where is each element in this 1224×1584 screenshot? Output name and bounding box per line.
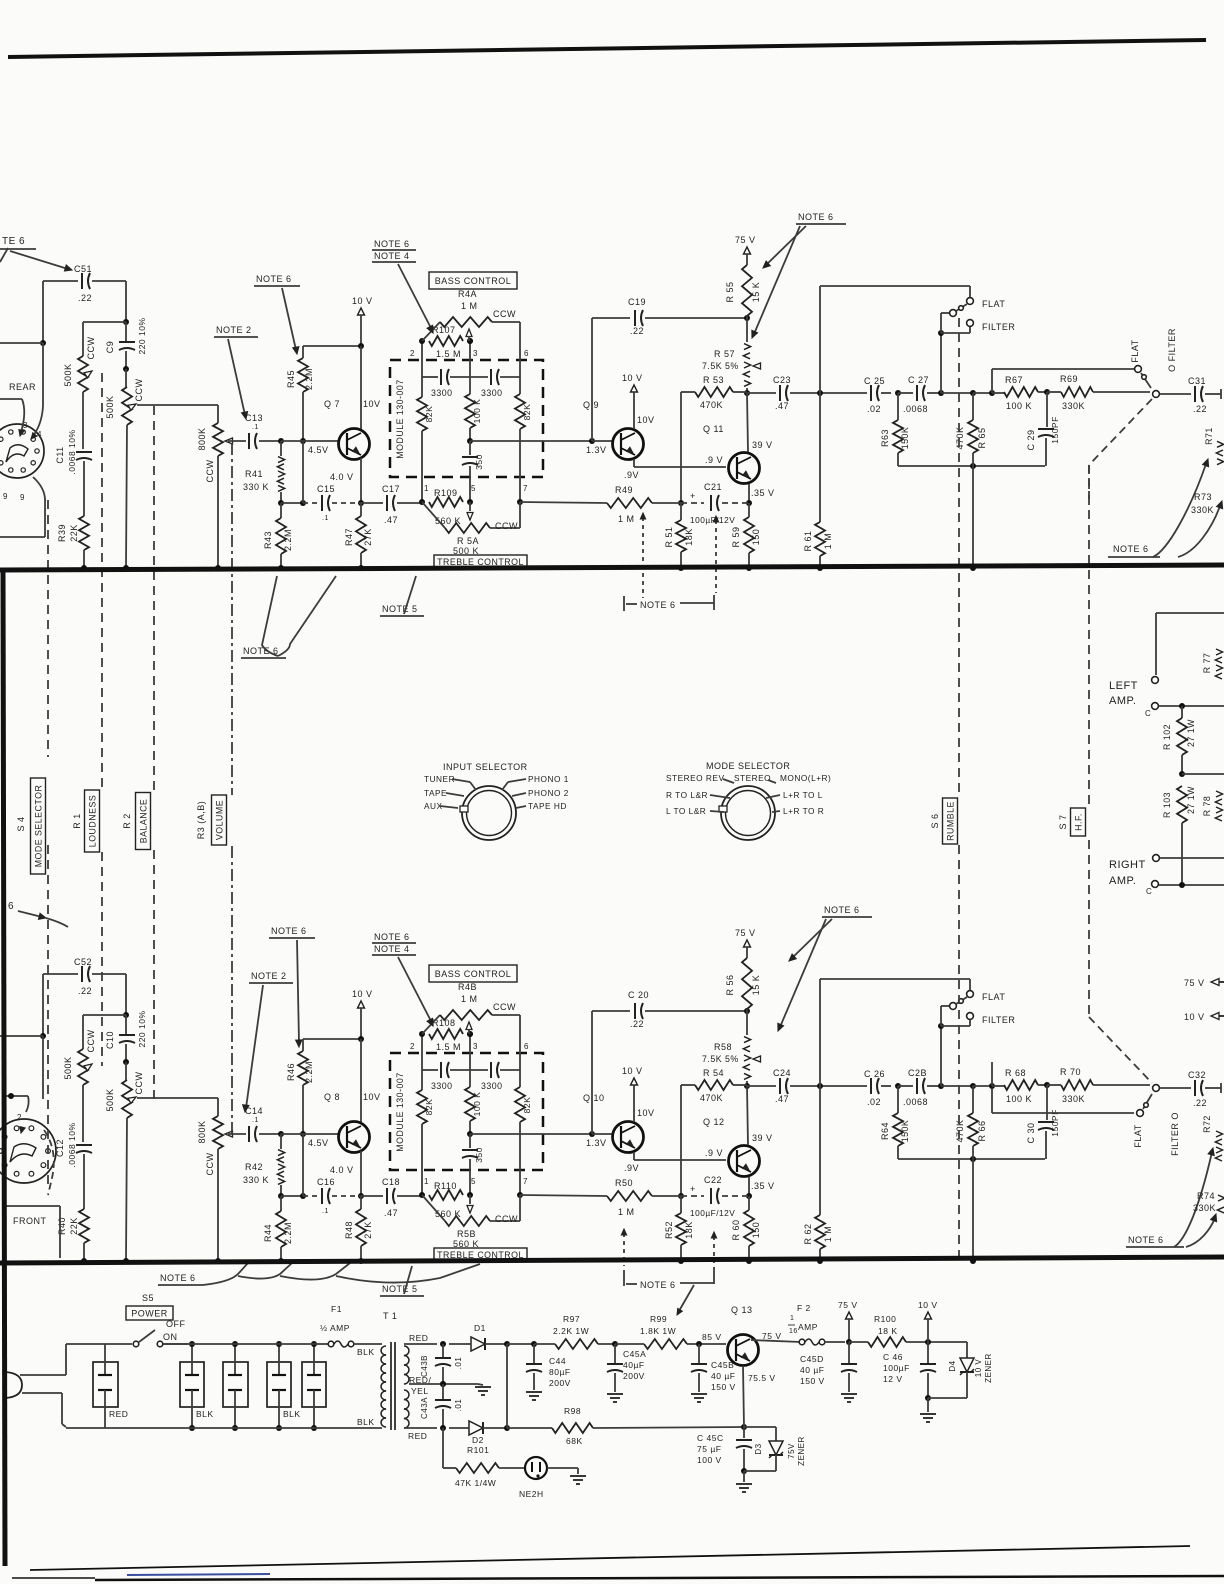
svg-text:R 5A: R 5A <box>457 536 479 546</box>
pot 500K <box>122 1080 132 1118</box>
capacitor C16 <box>303 1177 361 1215</box>
wire <box>215 456 221 571</box>
wire <box>81 1243 87 1264</box>
svg-text:CCW: CCW <box>205 460 215 483</box>
wire <box>519 1015 521 1087</box>
svg-text:RED: RED <box>109 1409 128 1419</box>
resistor R42 <box>243 1134 285 1199</box>
svg-text:BLK: BLK <box>357 1347 375 1357</box>
svg-text:27 1W: 27 1W <box>1186 786 1196 814</box>
wire <box>83 461 85 516</box>
svg-text:75 V: 75 V <box>838 1300 858 1310</box>
svg-text:.35 V: .35 V <box>751 1181 775 1191</box>
svg-text:RED: RED <box>408 1431 427 1441</box>
diode D4 zener <box>928 1342 993 1398</box>
wire <box>123 974 129 1018</box>
svg-text:FRONT: FRONT <box>13 1216 47 1226</box>
svg-text:6: 6 <box>524 349 529 358</box>
label R47 <box>344 528 373 546</box>
label R40 <box>57 1217 79 1235</box>
svg-text:R 62: R 62 <box>803 1223 813 1244</box>
svg-text:L+R TO L: L+R TO L <box>783 790 823 800</box>
resistor R100 <box>868 1337 906 1347</box>
svg-text:R44: R44 <box>263 1224 273 1242</box>
svg-text:10 V: 10 V <box>352 989 373 999</box>
svg-text:C24: C24 <box>773 1068 791 1078</box>
gang line S6 <box>958 318 960 1258</box>
svg-text:150: 150 <box>751 529 761 546</box>
svg-text:C 20: C 20 <box>628 990 649 1000</box>
svg-text:C15: C15 <box>317 484 335 494</box>
svg-text:100 K: 100 K <box>1006 1094 1032 1104</box>
svg-text:500K: 500K <box>63 363 73 386</box>
label R101 <box>443 1445 526 1488</box>
supply 10V <box>918 1300 938 1342</box>
svg-text:C 27: C 27 <box>908 375 929 385</box>
resistor R107 <box>429 336 463 346</box>
svg-text:10V: 10V <box>363 399 381 409</box>
capacitor C11 <box>55 429 92 474</box>
wire <box>1160 1087 1191 1089</box>
svg-text:C43A: C43A <box>420 1397 429 1419</box>
svg-text:2.2M: 2.2M <box>283 529 293 551</box>
module pin labels <box>410 349 529 493</box>
svg-text:C11: C11 <box>55 446 65 463</box>
diode D2 <box>466 1421 510 1445</box>
capacitor C 29 <box>1026 392 1060 466</box>
svg-text:C: C <box>1145 709 1151 718</box>
note 6 <box>8 901 68 927</box>
resistor R63 <box>893 420 903 453</box>
label R 62 <box>803 1223 833 1264</box>
svg-text:TE 6: TE 6 <box>2 236 25 247</box>
label R 53 <box>700 375 747 410</box>
svg-text:10 V: 10 V <box>918 1300 938 1310</box>
svg-text:NOTE 6: NOTE 6 <box>1128 1235 1164 1245</box>
svg-text:D4: D4 <box>948 1360 957 1371</box>
svg-text:Q 13: Q 13 <box>731 1305 753 1315</box>
svg-text:40 µF: 40 µF <box>711 1371 735 1381</box>
pot wiper <box>105 1072 144 1112</box>
capacitor C 20 <box>592 990 750 1134</box>
resistor 82K <box>417 397 427 431</box>
pot wiper <box>63 1030 96 1080</box>
label R1 loudness <box>72 790 100 852</box>
svg-text:R 78: R 78 <box>1202 796 1212 817</box>
svg-text:Q 10: Q 10 <box>583 1093 605 1103</box>
supply 75V <box>1184 978 1224 988</box>
svg-text:R40: R40 <box>57 1217 67 1235</box>
label R 5A <box>453 521 518 556</box>
note 6 <box>241 576 336 658</box>
svg-text:7.5K 5%: 7.5K 5% <box>702 361 739 371</box>
svg-text:75.5 V: 75.5 V <box>748 1373 776 1383</box>
svg-text:82K: 82K <box>424 406 434 423</box>
svg-text:1 M: 1 M <box>823 1226 833 1243</box>
capacitor 3300 <box>470 1062 520 1091</box>
resistor R97 <box>555 1339 598 1349</box>
svg-text:Q 11: Q 11 <box>703 424 724 434</box>
pot R4B <box>440 1010 492 1020</box>
wire <box>419 1031 425 1090</box>
label R67 <box>1005 375 1050 411</box>
svg-text:330K: 330K <box>1191 505 1214 515</box>
resistor R41 <box>243 441 285 506</box>
capacitor C 25 <box>864 376 901 414</box>
supply 10V <box>622 373 655 429</box>
label R108 <box>432 1018 473 1052</box>
svg-text:4.5V: 4.5V <box>308 445 329 455</box>
svg-text:R48: R48 <box>344 1221 354 1239</box>
svg-text:C45D: C45D <box>800 1354 824 1364</box>
svg-text:S 6: S 6 <box>930 813 940 828</box>
svg-text:800K: 800K <box>197 1120 207 1143</box>
svg-text:VOLUME: VOLUME <box>215 800 225 840</box>
resistor 82K <box>515 1087 525 1122</box>
svg-text:.47: .47 <box>384 1208 398 1218</box>
supply 10V <box>622 1066 655 1122</box>
input selector switch <box>424 762 569 840</box>
svg-text:AUX: AUX <box>424 801 443 811</box>
svg-text:Q 7: Q 7 <box>324 399 340 409</box>
wire <box>358 503 364 571</box>
resistor R46 <box>298 1051 308 1085</box>
wire Q9 emitter <box>634 1148 726 1160</box>
svg-text:BLK: BLK <box>357 1417 375 1427</box>
resistor 100K <box>465 394 475 428</box>
svg-text:C17: C17 <box>382 484 400 494</box>
svg-text:330K: 330K <box>1062 401 1085 411</box>
svg-text:3300: 3300 <box>431 388 453 398</box>
svg-text:R63: R63 <box>880 429 890 447</box>
svg-text:C 45C: C 45C <box>697 1433 724 1443</box>
svg-text:2: 2 <box>17 1113 22 1122</box>
top border line <box>8 40 1206 57</box>
svg-text:1 M: 1 M <box>823 533 833 550</box>
svg-text:R74: R74 <box>1197 1191 1215 1201</box>
svg-text:BASS CONTROL: BASS CONTROL <box>435 276 512 286</box>
svg-text:.1: .1 <box>322 515 329 522</box>
svg-text:.0068 10%: .0068 10% <box>67 429 77 474</box>
svg-text:82K: 82K <box>522 404 532 421</box>
wire <box>419 431 425 505</box>
power cord <box>5 1344 66 1427</box>
svg-text:C2B: C2B <box>908 1068 927 1078</box>
svg-text:5: 5 <box>471 1177 476 1186</box>
gang line S4 <box>47 500 49 1190</box>
svg-text:1: 1 <box>790 1315 794 1322</box>
wire <box>467 1121 473 1137</box>
label R5B <box>453 1214 518 1249</box>
svg-text:L+R TO R: L+R TO R <box>783 806 824 816</box>
rotary switch S2 front <box>0 1093 56 1226</box>
svg-text:470K: 470K <box>955 426 965 449</box>
svg-text:NOTE 5: NOTE 5 <box>382 1284 418 1294</box>
svg-text:R47: R47 <box>344 528 354 546</box>
svg-text:18K: 18K <box>684 1221 694 1239</box>
wire <box>970 453 976 571</box>
label R48 <box>344 1221 373 1239</box>
svg-text:CCW: CCW <box>495 1214 518 1224</box>
svg-text:C21: C21 <box>704 482 722 492</box>
resistor 82K <box>515 394 525 429</box>
svg-text:.22: .22 <box>1193 404 1207 414</box>
svg-text:R101: R101 <box>467 1445 489 1455</box>
diode D1 <box>466 1323 510 1351</box>
svg-text:FLAT: FLAT <box>1130 339 1140 362</box>
svg-text:C16: C16 <box>317 1177 335 1187</box>
capacitor C23 <box>747 375 867 411</box>
svg-text:NOTE 2: NOTE 2 <box>216 325 252 335</box>
wire <box>470 1131 613 1137</box>
svg-text:+: + <box>690 491 696 501</box>
bass control box <box>429 965 517 982</box>
switch S7 rotary top <box>992 328 1177 397</box>
wire <box>520 1195 607 1196</box>
wire <box>1179 755 1224 777</box>
svg-text:82K: 82K <box>522 1097 532 1114</box>
supply 10V <box>352 989 373 1042</box>
treble pot R5B <box>422 1195 445 1221</box>
pot wiper <box>466 1022 472 1034</box>
switch S5 power <box>66 1293 188 1347</box>
note 2 <box>243 971 293 1112</box>
svg-text:R 53: R 53 <box>703 375 724 385</box>
label 82K <box>424 406 434 423</box>
svg-text:.22: .22 <box>78 293 92 303</box>
ac outlet 5 <box>302 1341 326 1431</box>
svg-text:PHONO 1: PHONO 1 <box>528 774 569 784</box>
resistor R78 <box>1202 791 1223 821</box>
svg-text:D2: D2 <box>472 1435 484 1445</box>
svg-text:.9V: .9V <box>624 470 639 480</box>
wire <box>137 1098 218 1116</box>
wire <box>991 369 993 393</box>
resistor R74 <box>1174 1148 1224 1247</box>
svg-text:150 V: 150 V <box>711 1382 736 1392</box>
svg-text:200V: 200V <box>549 1378 571 1388</box>
svg-text:FILTER: FILTER <box>982 322 1015 332</box>
gang line R3 <box>231 443 233 1135</box>
svg-text:.0068 10%: .0068 10% <box>67 1122 77 1167</box>
svg-text:10V: 10V <box>637 415 655 425</box>
svg-text:75 V: 75 V <box>1184 978 1205 988</box>
capacitor 350 <box>462 1134 484 1195</box>
wire <box>747 1086 748 1145</box>
wire <box>137 405 218 423</box>
svg-text:BLK: BLK <box>283 1409 301 1419</box>
note 5 <box>380 1266 424 1296</box>
svg-text:R 59: R 59 <box>731 526 741 547</box>
supply 10V <box>352 296 373 349</box>
wire <box>743 1366 744 1427</box>
svg-text:.22: .22 <box>630 1019 644 1029</box>
resistor R 51 <box>676 520 686 552</box>
capacitor C2B <box>898 1068 944 1107</box>
label R39 <box>57 524 79 542</box>
resistor R108 <box>429 1029 463 1039</box>
svg-text:1: 1 <box>424 1177 429 1186</box>
resistor R48 <box>356 1209 366 1246</box>
wire <box>281 440 339 442</box>
resistor R 59 <box>744 517 754 553</box>
wire <box>358 458 364 506</box>
module 130-007 box <box>390 360 543 477</box>
wire <box>898 453 1045 469</box>
svg-text:150PF: 150PF <box>1050 416 1060 444</box>
svg-text:5: 5 <box>471 484 476 493</box>
wire <box>1156 613 1224 675</box>
mid divider line <box>0 565 1224 570</box>
svg-text:100µF/12V: 100µF/12V <box>690 515 735 525</box>
wire <box>467 338 473 394</box>
svg-text:F1: F1 <box>331 1304 342 1314</box>
ac outlet 2 <box>180 1341 214 1431</box>
wire <box>746 316 748 342</box>
svg-text:C52: C52 <box>74 957 92 967</box>
label R 65 <box>955 426 987 449</box>
transistor Q 9 <box>583 400 644 480</box>
svg-text:CCW: CCW <box>86 337 96 360</box>
wire <box>467 428 473 444</box>
capacitor C 30 <box>1026 1085 1060 1159</box>
capacitor C44 <box>526 1356 571 1400</box>
capacitor C22 <box>681 1175 749 1218</box>
wire <box>0 477 45 537</box>
svg-text:3300: 3300 <box>431 1081 453 1091</box>
svg-text:R67: R67 <box>1005 375 1023 385</box>
label R4A <box>458 289 516 319</box>
resistor R110 <box>429 1190 463 1200</box>
wire <box>44 1130 54 1195</box>
label 100K <box>472 399 482 424</box>
svg-text:R 65: R 65 <box>977 427 987 448</box>
wire <box>280 1196 282 1211</box>
svg-text:NOTE 6: NOTE 6 <box>1113 544 1149 554</box>
svg-text:LOUDNESS: LOUDNESS <box>88 795 98 847</box>
svg-text:800K: 800K <box>197 427 207 450</box>
svg-text:75 µF: 75 µF <box>697 1444 721 1454</box>
svg-text:470K: 470K <box>955 1119 965 1142</box>
svg-text:.1: .1 <box>322 1208 329 1215</box>
wire <box>419 338 425 397</box>
svg-text:15 K: 15 K <box>751 975 761 996</box>
label R103 <box>1162 786 1196 818</box>
ganged switch dashes <box>1089 1017 1152 1083</box>
svg-text:.22: .22 <box>78 986 92 996</box>
capacitor 3300 <box>422 369 470 398</box>
svg-text:330K: 330K <box>1062 1094 1085 1104</box>
svg-text:R 102: R 102 <box>1162 724 1172 750</box>
capacitor C18 <box>361 1177 422 1218</box>
note 6 bracket <box>624 513 719 611</box>
wire <box>517 429 523 505</box>
svg-text:CCW: CCW <box>493 1002 516 1012</box>
svg-text:.02: .02 <box>867 1097 881 1107</box>
capacitor C12 <box>55 1122 92 1167</box>
supply 10V <box>1184 1012 1224 1022</box>
wire <box>215 1149 221 1264</box>
resistor R45 <box>298 358 308 392</box>
svg-text:MODE SELECTOR: MODE SELECTOR <box>34 785 44 868</box>
svg-text:10 V: 10 V <box>622 1066 643 1076</box>
pot 500K <box>122 387 132 425</box>
svg-text:2.2K 1W: 2.2K 1W <box>553 1326 589 1336</box>
treble control box <box>434 555 527 568</box>
label R43 <box>263 529 293 551</box>
svg-text:TUNER: TUNER <box>424 774 455 784</box>
svg-text:.9 V: .9 V <box>705 455 723 465</box>
wire <box>123 1118 129 1264</box>
svg-text:CCW: CCW <box>205 1153 215 1176</box>
svg-text:½ AMP: ½ AMP <box>320 1323 350 1333</box>
svg-text:7: 7 <box>523 1177 528 1186</box>
svg-text:.01: .01 <box>454 1357 463 1370</box>
label R 56 <box>725 974 761 995</box>
svg-text:80µF: 80µF <box>549 1367 571 1377</box>
svg-text:R98: R98 <box>564 1406 581 1416</box>
label R45 <box>286 368 314 390</box>
transistor Q13 <box>728 1305 782 1383</box>
resistor R103 <box>1177 786 1187 823</box>
capacitor C45B <box>691 1360 736 1402</box>
diode D3 zener <box>744 1427 806 1471</box>
svg-text:C45A: C45A <box>623 1349 646 1359</box>
svg-text:.47: .47 <box>775 1094 789 1104</box>
svg-text:10V: 10V <box>363 1092 381 1102</box>
svg-text:PHONO 2: PHONO 2 <box>528 788 569 798</box>
wire <box>746 1177 752 1199</box>
label R 54 <box>700 1068 747 1103</box>
svg-text:.1: .1 <box>252 424 259 431</box>
wire <box>817 390 823 522</box>
svg-text:NOTE 5: NOTE 5 <box>382 604 418 614</box>
transformer T1 <box>357 1311 431 1441</box>
resistor R 68 <box>1004 1080 1038 1090</box>
svg-text:C 30: C 30 <box>1026 1122 1036 1143</box>
svg-text:MODE SELECTOR: MODE SELECTOR <box>706 761 790 771</box>
resistor R102 <box>1177 718 1187 755</box>
svg-text:RIGHT: RIGHT <box>1109 859 1146 871</box>
wire <box>303 1039 361 1051</box>
svg-text:MODULE 130-007: MODULE 130-007 <box>395 379 405 458</box>
pot 800K <box>213 1116 223 1149</box>
resistor R50 <box>607 1191 652 1201</box>
svg-text:6: 6 <box>524 1042 529 1051</box>
wire <box>123 281 129 325</box>
label R2 balance <box>122 793 151 850</box>
label 82K <box>424 1099 434 1116</box>
resistor R40 <box>79 1209 89 1243</box>
svg-text:R73: R73 <box>1194 492 1212 502</box>
svg-text:CCW: CCW <box>134 1072 144 1095</box>
resistor R 55 <box>742 265 752 316</box>
wire <box>490 1195 520 1221</box>
svg-text:3: 3 <box>473 349 478 358</box>
lower divider line <box>0 1257 1224 1263</box>
resistor R44 <box>276 1211 286 1247</box>
capacitor C45C <box>697 1427 752 1474</box>
wire <box>519 322 521 394</box>
svg-text:RED: RED <box>409 1333 428 1343</box>
svg-text:4.0 V: 4.0 V <box>330 1165 354 1175</box>
supply 75V <box>735 235 756 265</box>
svg-text:R69: R69 <box>1060 374 1078 384</box>
wire <box>941 1083 1004 1089</box>
label S7 hf <box>1058 808 1086 836</box>
wire <box>81 550 87 571</box>
capacitor C13 <box>228 413 284 449</box>
